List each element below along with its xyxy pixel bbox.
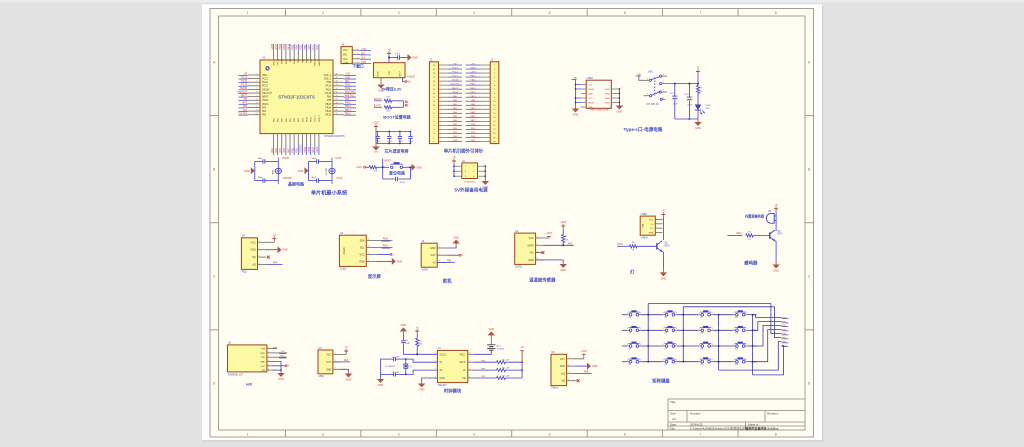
svg-text:GND: GND [275, 44, 278, 50]
svg-text:VDD_1: VDD_1 [324, 75, 332, 77]
wire buzzer collector [775, 229, 776, 231]
svg-text:GND: GND [298, 170, 304, 173]
svg-text:File:: File: [670, 426, 676, 430]
resistor R2 1K buzzer [727, 235, 742, 237]
svg-text:S9: S9 [700, 317, 702, 319]
svg-text:36: 36 [336, 73, 338, 75]
svg-text:GND: GND [374, 151, 379, 153]
svg-text:PA5: PA5 [568, 242, 573, 245]
crystal Y [329, 168, 335, 173]
svg-text:VCC: VCC [251, 241, 256, 244]
sensor U2 DHT11 [515, 233, 536, 264]
svg-text:1: 1 [627, 313, 628, 315]
U1 left pins [248, 74, 261, 76]
svg-text:PB1: PB1 [296, 147, 299, 152]
power +5 servo [447, 254, 460, 256]
svg-text:R7_10K: R7_10K [502, 375, 510, 377]
svg-text:S1: S1 [629, 317, 631, 319]
svg-text:PA0: PA0 [262, 106, 267, 109]
svg-text:OSCOUT: OSCOUT [283, 178, 293, 180]
sensor U8 [551, 354, 567, 385]
power +5 light [662, 215, 664, 218]
wire wifi EN [273, 369, 282, 371]
svg-text:温湿度传感器: 温湿度传感器 [529, 277, 556, 284]
jumper pins [405, 101, 407, 103]
svg-text:VDD_3: VDD_3 [319, 114, 321, 122]
svg-text:GND: GND [244, 170, 250, 173]
svg-text:Flame: Flame [551, 387, 558, 390]
svg-text:PB13: PB13 [325, 111, 331, 113]
svg-text:PB15: PB15 [325, 104, 331, 106]
ground crystal [251, 167, 255, 174]
svg-text:R6_10K: R6_10K [502, 368, 510, 370]
svg-text:5: 5 [549, 11, 551, 15]
wire crystal to X1 [406, 359, 438, 362]
ground J3 [484, 179, 486, 182]
svg-text:1: 1 [627, 344, 628, 346]
svg-text:PC14: PC14 [452, 72, 458, 74]
svg-text:+3V3: +3V3 [560, 221, 566, 224]
svg-text:CC2: CC2 [588, 98, 593, 100]
svg-text:EN: EN [262, 370, 265, 372]
svg-text:LED: LED [706, 108, 711, 110]
svg-text:蜂鸣器: 蜂鸣器 [744, 259, 758, 266]
sheet page [202, 5, 822, 441]
svg-text:晶振电路: 晶振电路 [288, 180, 304, 186]
U1 bottom pins [273, 134, 275, 146]
svg-text:GND: GND [773, 270, 779, 273]
svg-text:VIN: VIN [389, 71, 391, 75]
svg-text:1: 1 [434, 352, 435, 354]
svg-text:TDI: TDI [290, 59, 292, 63]
svg-text:4: 4 [663, 90, 664, 92]
svg-text:VBUS: VBUS [588, 89, 594, 91]
svg-text:PB13: PB13 [383, 246, 389, 248]
svg-text:5: 5 [549, 432, 551, 436]
svg-text:GND: GND [346, 379, 352, 382]
svg-text:DIO: DIO [361, 53, 365, 55]
svg-text:PA3: PA3 [271, 148, 274, 153]
svg-text:1838: 1838 [318, 375, 324, 378]
svg-text:PA0: PA0 [243, 105, 248, 108]
svg-text:GND: GND [573, 114, 579, 117]
svg-text:单片机引脚外引排针: 单片机引脚外引排针 [444, 148, 484, 155]
crystal Y [275, 168, 281, 173]
svg-text:OSCOUT: OSCOUT [450, 84, 460, 86]
svg-text:1: 1 [663, 328, 664, 330]
ground at regulator [380, 78, 382, 84]
LED1 [695, 105, 702, 111]
svg-text:2: 2 [647, 78, 648, 80]
svg-text:13: 13 [493, 113, 495, 115]
svg-text:2: 2 [322, 432, 324, 436]
svg-text:PA1: PA1 [262, 110, 267, 113]
svg-text:VCC: VCC [529, 237, 534, 240]
svg-text:1: 1 [627, 360, 628, 362]
svg-text:PB10: PB10 [304, 146, 307, 153]
svg-text:33: 33 [336, 84, 338, 86]
svg-text:1: 1 [247, 11, 249, 15]
svg-text:PA7: PA7 [287, 148, 290, 153]
capacitor EC1 22uF [674, 84, 676, 96]
svg-text:PB13: PB13 [470, 88, 476, 90]
power +5 led [697, 72, 699, 75]
svg-text:GND: GND [430, 247, 436, 250]
svg-text:A4: A4 [672, 417, 676, 421]
svg-text:KIT DIP-03: KIT DIP-03 [646, 103, 659, 106]
display U3 OLED [339, 235, 366, 266]
svg-text:SCL: SCL [360, 246, 365, 249]
power +5 at regulator [388, 54, 390, 57]
svg-text:OUT: OUT [326, 361, 332, 364]
svg-text:PB12: PB12 [345, 113, 351, 115]
wire clock SCLK [474, 361, 497, 363]
svg-text:芯片滤波电容: 芯片滤波电容 [385, 148, 409, 154]
resistor R BOOT0 10K [384, 99, 392, 102]
wire crystal rails [254, 161, 256, 180]
svg-text:PA8: PA8 [345, 98, 350, 101]
svg-text:DQ: DQ [561, 372, 565, 375]
svg-text:GND: GND [592, 365, 598, 368]
button S16 [736, 360, 739, 363]
svg-text:4: 4 [494, 77, 495, 79]
battery BC1 CR2032 [490, 335, 492, 337]
svg-text:MQ2: MQ2 [242, 271, 248, 274]
capacitor C13 104uf [410, 132, 412, 137]
svg-text:1: 1 [699, 344, 700, 346]
svg-text:1: 1 [699, 360, 700, 362]
microcontroller U1 STM32F103C8T6 [260, 60, 333, 134]
svg-text:SCLK: SCLK [459, 362, 465, 364]
ground clock cap [402, 331, 404, 333]
wire keyboard route row4 to PB net [753, 330, 782, 362]
svg-text:2: 2 [640, 344, 641, 346]
svg-text:PA11: PA11 [326, 88, 332, 91]
svg-text:32.768KHZ: 32.768KHZ [385, 366, 396, 368]
wire cap to gnd [400, 57, 408, 59]
wire wifi RXD TX2 [273, 352, 288, 354]
no connect DHT11 [536, 252, 541, 254]
svg-text:9: 9 [494, 97, 495, 99]
svg-text:104P: 104P [405, 343, 410, 345]
svg-text:PA12: PA12 [470, 115, 476, 118]
svg-text:19: 19 [433, 69, 435, 71]
svg-text:VCC1: VCC1 [459, 354, 466, 356]
svg-text:PC13: PC13 [262, 79, 268, 81]
svg-text:OSCIN: OSCIN [282, 158, 290, 160]
svg-text:PA1: PA1 [243, 109, 248, 112]
power +5 clock [416, 331, 418, 334]
svg-text:30pF: 30pF [258, 177, 263, 179]
svg-text:OSCOUT: OSCOUT [262, 93, 272, 95]
no connect U8 AQ [575, 380, 577, 382]
svg-text:10: 10 [493, 101, 495, 103]
svg-text:GND: GND [560, 269, 566, 272]
resistor R 10K reset [369, 166, 377, 169]
svg-text:5: 5 [257, 88, 258, 90]
svg-text:B: B [213, 167, 215, 171]
resistor R6_10K clock [497, 369, 506, 372]
svg-text:20: 20 [433, 65, 435, 67]
power +5 buzzer [775, 209, 777, 212]
svg-text:PA4: PA4 [273, 262, 278, 265]
svg-text:2: 2 [676, 313, 677, 315]
sheet border frame [210, 9, 814, 438]
power +3V3 DHT11 [544, 237, 549, 239]
svg-text:28: 28 [336, 102, 338, 104]
svg-text:DATA: DATA [528, 244, 534, 247]
svg-text:S6: S6 [665, 333, 667, 335]
connector USB1 Type-C [586, 80, 611, 108]
svg-text:PA6: PA6 [283, 148, 286, 153]
svg-text:DIO: DIO [316, 45, 319, 50]
svg-text:GND: GND [695, 127, 701, 130]
regulator U6 XC6206 [374, 63, 406, 78]
svg-text:3: 3 [465, 171, 466, 173]
capacitor crystal top 30pF [316, 159, 318, 163]
svg-text:NC: NC [530, 252, 534, 255]
svg-text:+3V3: +3V3 [271, 43, 274, 50]
wire reset right [403, 166, 412, 168]
svg-text:GND: GND [419, 389, 425, 392]
svg-text:7: 7 [257, 95, 258, 97]
wire keyboard column 1 [647, 304, 649, 362]
svg-text:PB7: PB7 [308, 44, 311, 49]
svg-text:PA9 TX1: PA9 TX1 [345, 94, 355, 97]
svg-text:STM32F103C8T6: STM32F103C8T6 [324, 134, 345, 138]
svg-text:3: 3 [257, 81, 258, 83]
svg-text:VCC: VCC [430, 254, 435, 257]
power +5 MQ2 [266, 241, 274, 243]
wire DHT11 data [544, 244, 574, 246]
svg-text:29: 29 [336, 99, 338, 101]
svg-text:S4: S4 [629, 364, 631, 366]
ground crystal [305, 167, 309, 174]
resistor R7_10K clock [497, 376, 506, 379]
svg-text:wifi: wifi [245, 383, 252, 387]
title block [668, 398, 805, 400]
svg-text:GND: GND [412, 57, 418, 60]
svg-text:灯: 灯 [630, 268, 635, 275]
svg-text:GND: GND [378, 71, 380, 76]
svg-text:PC13: PC13 [241, 77, 247, 79]
svg-text:104uf: 104uf [395, 54, 400, 56]
svg-text:RXD: RXD [260, 353, 265, 355]
wire wifi TXD RX2 [273, 356, 288, 358]
svg-text:VSSA: VSSA [262, 99, 269, 102]
svg-text:GND: GND [605, 103, 610, 105]
ground 1838 [340, 369, 349, 371]
svg-text:DS1302: DS1302 [438, 384, 447, 387]
svg-text:VSS_2: VSS_2 [278, 58, 280, 65]
wire filter cap top rail [375, 130, 377, 132]
button S14 [665, 360, 668, 363]
svg-text:25: 25 [336, 113, 338, 115]
svg-text:VSS_3: VSS_3 [315, 115, 317, 122]
svg-text:GND: GND [278, 378, 284, 381]
svg-text:1: 1 [663, 360, 664, 362]
svg-text:22uF: 22uF [687, 105, 692, 107]
svg-text:显示屏: 显示屏 [368, 273, 382, 280]
svg-text:PB11: PB11 [286, 58, 288, 64]
svg-text:17: 17 [493, 129, 495, 131]
U1 top pins [273, 51, 275, 61]
svg-text:26: 26 [336, 110, 338, 112]
svg-text:PA11: PA11 [470, 111, 476, 114]
wire OLED SDA [377, 239, 393, 241]
svg-text:3: 3 [663, 81, 664, 83]
svg-text:2: 2 [257, 77, 258, 79]
svg-text:DHT11: DHT11 [515, 266, 523, 269]
svg-text:1: 1 [663, 74, 664, 76]
svg-text:AQ: AQ [562, 380, 566, 383]
svg-text:PB11: PB11 [283, 43, 286, 50]
capacitor C10 104uf [377, 132, 379, 137]
svg-text:11: 11 [493, 105, 495, 107]
svg-text:GND: GND [416, 166, 422, 169]
svg-text:4: 4 [473, 432, 475, 436]
svg-text:8MHz: 8MHz [272, 169, 274, 174]
svg-text:GND: GND [440, 378, 445, 380]
svg-text:PA12: PA12 [345, 84, 351, 87]
svg-text:PB10: PB10 [282, 58, 284, 64]
svg-text:+3V3: +3V3 [361, 49, 367, 51]
svg-text:PA2: PA2 [262, 114, 267, 117]
svg-text:PC13: PC13 [452, 68, 458, 70]
svg-text:S13: S13 [735, 317, 738, 319]
wire keyboard route row2 to PB net [753, 322, 782, 331]
svg-text:STM32F103C8T6: STM32F103C8T6 [278, 94, 315, 99]
svg-text:S14: S14 [735, 333, 738, 335]
svg-text:DIO: DIO [343, 55, 347, 57]
connector USB2 light [640, 216, 655, 235]
svg-text:Type-c口-电源电路: Type-c口-电源电路 [624, 126, 663, 133]
svg-text:4: 4 [621, 88, 622, 90]
svg-text:12: 12 [433, 97, 435, 99]
svg-text:CR2032: CR2032 [497, 348, 505, 350]
svg-text:VDD_2: VDD_2 [273, 58, 275, 66]
svg-text:VB: VB [244, 74, 248, 76]
svg-text:2: 2 [640, 360, 641, 362]
svg-text:USB2: USB2 [641, 213, 648, 216]
ground servo [447, 246, 456, 249]
svg-text:S7: S7 [665, 348, 667, 350]
svg-text:LED1: LED1 [706, 105, 712, 107]
connector J4 download port [341, 47, 352, 64]
svg-text:2: 2 [473, 166, 474, 168]
connector J2 header [490, 62, 499, 144]
svg-text:GND: GND [605, 89, 610, 91]
svg-text:PB5: PB5 [300, 44, 303, 49]
svg-text:6: 6 [624, 432, 626, 436]
svg-text:GND: GND [588, 94, 593, 96]
resistor R4 10K clock [416, 334, 418, 338]
svg-text:C:\Users\HUAWEI\Desktop\2024智能: C:\Users\HUAWEI\Desktop\2024智能药盒设计\ [690, 426, 749, 430]
sensor U4 MQ2 [241, 238, 257, 270]
svg-text:8: 8 [775, 11, 777, 15]
svg-text:10: 10 [433, 105, 435, 107]
svg-text:5: 5 [433, 125, 434, 127]
svg-text:IO: IO [433, 261, 436, 264]
svg-text:6: 6 [494, 85, 495, 87]
svg-text:3V3: 3V3 [407, 82, 412, 84]
power +5 J3 [453, 161, 455, 164]
wire regulator input [388, 57, 390, 63]
svg-text:2: 2 [746, 328, 747, 330]
wire boot to jumper [392, 100, 404, 102]
svg-text:7: 7 [494, 89, 495, 91]
svg-text:GND: GND [250, 249, 256, 252]
svg-text:6: 6 [257, 91, 258, 93]
svg-text:1: 1 [357, 49, 358, 51]
svg-text:+3V3: +3V3 [373, 122, 379, 125]
svg-text:1: 1 [627, 328, 628, 330]
svg-text:PB14: PB14 [345, 106, 351, 108]
svg-text:15: 15 [433, 85, 435, 87]
svg-text:3: 3 [398, 11, 400, 15]
svg-text:GND: GND [397, 260, 403, 263]
svg-text:GND: GND [528, 259, 534, 262]
svg-text:6: 6 [624, 11, 626, 15]
svg-text:舵机: 舵机 [443, 277, 452, 284]
svg-text:104uf: 104uf [398, 141, 403, 143]
wire keyboard route col1 to PB net [648, 304, 781, 334]
svg-text:PB3: PB3 [291, 44, 294, 49]
svg-text:VCC: VCC [326, 354, 331, 357]
button S11 [701, 345, 704, 348]
button S6 [665, 329, 668, 332]
svg-text:USB1: USB1 [587, 77, 594, 80]
svg-text:NRST: NRST [241, 95, 248, 97]
U1 right pins [333, 74, 344, 76]
svg-text:GND: GND [401, 324, 407, 327]
svg-text:1: 1 [699, 328, 700, 330]
button S1 [629, 313, 632, 316]
button S5 [629, 329, 632, 332]
svg-text:1: 1 [465, 166, 466, 168]
clock U7 DS1302 [437, 350, 467, 382]
svg-text:+3V3: +3V3 [470, 72, 476, 74]
svg-text:PB11: PB11 [311, 116, 313, 122]
svg-text:GND: GND [326, 368, 332, 371]
svg-text:7: 7 [699, 11, 701, 15]
svg-text:1: 1 [733, 344, 734, 346]
svg-text:Revision: Revision [767, 412, 779, 416]
wire keyboard row 2 [622, 329, 627, 331]
svg-text:PB0: PB0 [291, 147, 294, 152]
svg-text:2: 2 [746, 344, 747, 346]
svg-text:XC6206: XC6206 [407, 77, 416, 79]
svg-text:32: 32 [336, 88, 338, 90]
svg-text:OSCIN: OSCIN [452, 80, 459, 82]
button S12 [736, 345, 739, 348]
svg-text:1: 1 [663, 344, 664, 346]
svg-text:VCC2: VCC2 [440, 354, 447, 356]
svg-text:DQ: DQ [252, 256, 256, 259]
wire typec right [618, 89, 620, 103]
svg-text:PA4: PA4 [275, 148, 278, 153]
svg-text:Number: Number [690, 412, 701, 416]
svg-text:2: 2 [676, 360, 677, 362]
button S7 [701, 329, 704, 332]
svg-text:GND: GND [282, 249, 288, 252]
svg-text:Title: Title [670, 400, 676, 404]
svg-text:GND: GND [649, 232, 654, 234]
button reset [391, 166, 393, 168]
power +5 wifi [273, 365, 286, 367]
svg-text:PB10: PB10 [279, 43, 282, 50]
svg-text:VDDA: VDDA [262, 103, 269, 106]
